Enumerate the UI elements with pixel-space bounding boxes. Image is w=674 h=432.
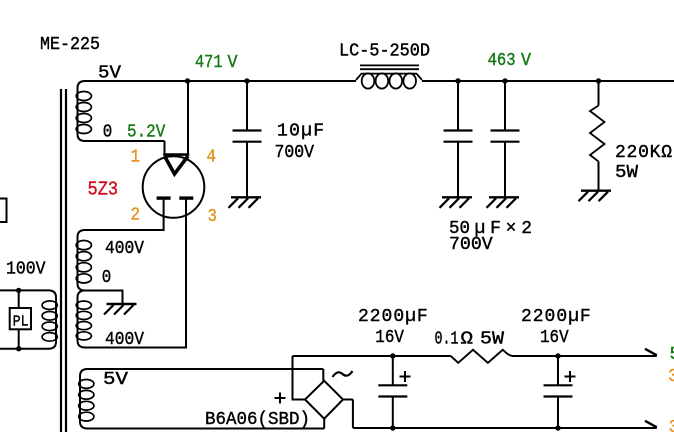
capacitor C3 50uF plates	[491, 129, 520, 131]
wire AC2 (5V bottom lead to bridge)	[87, 428, 325, 430]
wire pin4 to rail	[187, 81, 189, 156]
secondary 400V lower winding	[78, 291, 86, 298]
wire AC1 (5V top lead to bridge)	[87, 368, 324, 370]
cut-off box at left edge	[0, 199, 7, 223]
wire 5V-0 tap to pin1	[84, 140, 165, 142]
primary winding 100V	[49, 290, 57, 297]
label + (C5)	[565, 376, 576, 378]
ground C3	[489, 196, 519, 198]
junction C5 bottom	[555, 425, 560, 430]
rectifier tube V1 5Z3 envelope	[143, 156, 205, 218]
svg-text:220KΩ: 220KΩ	[615, 143, 672, 163]
svg-text:5: 5	[670, 345, 674, 365]
tube plate (pin 2)	[157, 196, 171, 199]
svg-text:2: 2	[131, 206, 141, 226]
capacitor C1 10uF plates	[233, 129, 262, 131]
svg-text:0: 0	[102, 268, 112, 288]
svg-text:400V: 400V	[105, 239, 144, 259]
capacitor C4 plates	[378, 384, 407, 386]
junction C2 top	[455, 78, 460, 83]
wire pin3 stem	[185, 198, 187, 347]
svg-text:V: V	[521, 51, 531, 71]
svg-text:3: 3	[208, 207, 218, 227]
svg-text:0.1: 0.1	[435, 330, 459, 350]
svg-text:5W: 5W	[615, 163, 638, 183]
choke L1 LC-5-250D core	[360, 64, 419, 66]
wire negative output	[343, 399, 353, 401]
secondary 5V winding (bottom)	[80, 369, 88, 376]
svg-text:5.2V: 5.2V	[127, 123, 165, 143]
wire positive output	[293, 399, 306, 401]
capacitor C5 2200uF stub	[557, 356, 559, 385]
resistor R2 0.1ohm zigzag	[451, 350, 512, 363]
arrow negative output	[645, 421, 657, 428]
svg-text:5W: 5W	[480, 330, 504, 350]
pilot lamp PL wires	[18, 290, 20, 308]
junction R1 top	[596, 78, 601, 83]
bridge rectifier D1 diamond	[305, 381, 343, 419]
junction primary bottom	[16, 346, 21, 351]
wire primary top	[0, 289, 49, 291]
svg-text:3: 3	[668, 367, 674, 387]
junction C4 bottom	[390, 425, 395, 430]
pilot lamp PL	[10, 308, 31, 329]
junction node 471V	[185, 78, 190, 83]
wire positive output (after R2)	[512, 355, 657, 357]
secondary 5V winding (top)	[78, 81, 86, 88]
svg-text:V: V	[228, 53, 238, 73]
svg-text:Ω: Ω	[461, 330, 474, 350]
ground center tap	[107, 303, 137, 305]
svg-text:0: 0	[103, 123, 113, 143]
arrow positive output	[645, 349, 657, 356]
wire primary bottom	[0, 348, 49, 350]
svg-text:1: 1	[131, 148, 141, 168]
svg-text:5Z3: 5Z3	[88, 179, 119, 201]
tube filament bar	[163, 153, 189, 156]
svg-text:471: 471	[195, 53, 223, 73]
resistor R1 220K stub top	[598, 81, 600, 106]
resistor R1 stub bottom	[598, 162, 600, 191]
svg-text:B6A06(SBD): B6A06(SBD)	[205, 410, 310, 430]
wire top rail (right of choke)	[422, 80, 674, 82]
label + (C4)	[400, 376, 411, 378]
tube filament V	[165, 156, 189, 174]
svg-text:2200µF: 2200µF	[521, 307, 591, 327]
capacitor C2 50uF stub	[457, 81, 459, 131]
ground R1	[581, 189, 611, 191]
svg-text:16V: 16V	[540, 328, 569, 348]
capacitor C2 50uF plates	[444, 129, 473, 131]
junction C5 top	[555, 353, 560, 358]
junction C4 top	[390, 353, 395, 358]
wire top rail (left of choke)	[85, 80, 356, 82]
transformer T1 core	[60, 89, 62, 432]
capacitor C4 2200uF stub	[392, 356, 394, 385]
capacitor C3 50uF stub	[504, 81, 506, 131]
svg-text:100V: 100V	[6, 260, 46, 280]
capacitor C5 plates	[544, 384, 573, 386]
junction C3 top	[502, 78, 507, 83]
center tap wire 0	[84, 290, 123, 292]
svg-text:400V: 400V	[105, 330, 144, 350]
label ~ (bridge AC mark)	[333, 371, 353, 377]
svg-text:3: 3	[669, 418, 674, 432]
svg-text:10µF: 10µF	[277, 122, 324, 142]
secondary 400V upper winding	[78, 230, 86, 237]
wire pin2 stem	[163, 198, 165, 231]
svg-text:700V: 700V	[275, 143, 315, 163]
svg-text:5V: 5V	[103, 370, 128, 390]
svg-text:PL: PL	[13, 314, 29, 331]
label + (bridge positive)	[275, 397, 286, 399]
svg-text:16V: 16V	[375, 328, 404, 348]
ground C2	[442, 196, 472, 198]
capacitor C1 10uF stub	[246, 81, 248, 131]
junction C1 top	[244, 78, 249, 83]
svg-text:4: 4	[207, 148, 217, 168]
junction primary top	[16, 288, 21, 293]
tube plate (pin 3)	[179, 196, 193, 199]
svg-text:700V: 700V	[449, 235, 493, 255]
ground C1	[231, 196, 261, 198]
resistor R1 220K zigzag	[590, 106, 605, 162]
svg-text:LC-5-250D: LC-5-250D	[339, 42, 430, 62]
svg-text:ME-225: ME-225	[40, 35, 100, 55]
choke L1 coil	[356, 74, 422, 80]
svg-text:463: 463	[488, 51, 516, 71]
svg-text:2200µF: 2200µF	[358, 307, 428, 327]
